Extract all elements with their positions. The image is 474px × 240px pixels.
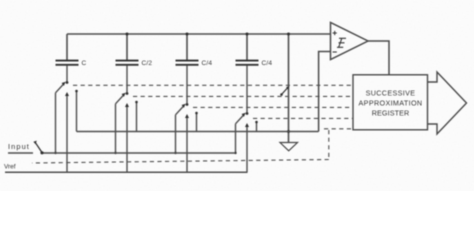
svg-text:C: C <box>82 60 87 67</box>
svg-text:APPROXIMATION: APPROXIMATION <box>359 99 423 108</box>
svg-text:C/2: C/2 <box>142 60 153 67</box>
svg-text:C/4: C/4 <box>262 60 273 67</box>
svg-text:C/4: C/4 <box>202 60 213 67</box>
svg-text:REGISTER: REGISTER <box>372 109 410 118</box>
svg-text:Vref: Vref <box>4 164 16 171</box>
svg-text:SUCCESSIVE: SUCCESSIVE <box>366 89 416 98</box>
svg-text:Input: Input <box>8 142 30 151</box>
